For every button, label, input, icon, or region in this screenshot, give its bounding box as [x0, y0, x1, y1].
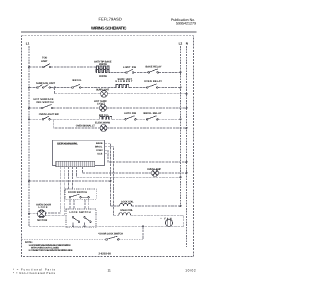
junction lock foot B — [84, 225, 86, 227]
oven lamp L4 — [152, 170, 159, 177]
svg-text:IND SWITCH: IND SWITCH — [37, 101, 54, 104]
junction lock foot A — [72, 225, 74, 227]
harness wire 4 from connector — [71, 167, 73, 189]
junction oven lamp row N — [186, 172, 188, 174]
switch S9 — [125, 116, 137, 120]
wire lock row lower — [114, 215, 184, 226]
harness wire 1 from connector — [45, 167, 60, 213]
lock solenoid coil upper — [120, 203, 132, 206]
broil element coil R3 — [99, 116, 112, 119]
svg-text:* = Non-Illustrated Parts: * = Non-Illustrated Parts — [13, 272, 56, 275]
wire dashed interlock row — [22, 238, 143, 240]
svg-text:BAKE RELAY: BAKE RELAY — [146, 66, 162, 69]
wire oven lamp row — [83, 172, 187, 174]
wire row4 hot surface circuit — [29, 107, 187, 109]
switch S3 bake relay — [148, 69, 159, 73]
lamp L2 hot surface — [100, 105, 107, 112]
svg-text:DOOR SWITCH: DOOR SWITCH — [68, 191, 87, 194]
svg-text:L1: L1 — [26, 42, 30, 46]
svg-text:* DOOR LOCK SWITCH: * DOOR LOCK SWITCH — [98, 232, 123, 235]
junction row1-L1 — [28, 66, 30, 68]
switch S5 — [72, 84, 81, 88]
N bus — [186, 46, 188, 247]
switch S10 broil relay — [146, 116, 158, 120]
L1 bus — [28, 46, 30, 226]
door switch contact — [69, 194, 89, 198]
svg-text:ELECTRONIC OVEN CONTROL: ELECTRONIC OVEN CONTROL — [57, 142, 78, 145]
lock switch contact A — [72, 217, 80, 223]
schematic border frame — [22, 36, 194, 257]
svg-text:2-6203-08: 2-6203-08 — [99, 252, 112, 255]
svg-text:CONV: CONV — [96, 149, 103, 152]
svg-text:OVEN LIGHT SW: OVEN LIGHT SW — [39, 113, 60, 116]
door switch box dashed — [65, 189, 96, 199]
junction connector row L2 — [180, 176, 182, 178]
junction row3-N — [186, 93, 188, 95]
junction lock row upper L2 end — [180, 205, 182, 207]
svg-text:N: N — [186, 42, 189, 46]
junction DLB wire N — [186, 161, 188, 163]
wire row1 bake circuit — [29, 67, 181, 72]
junction lock feed L1 — [28, 180, 30, 182]
bake element coil connector — [95, 69, 97, 73]
svg-text:LIMIT SW: LIMIT SW — [123, 66, 137, 69]
title rule — [21, 31, 197, 33]
door lock motor M1 — [38, 210, 46, 218]
wire row2 surface unit circuit — [29, 87, 181, 89]
convection fan motor M2 — [165, 219, 172, 226]
svg-text:MOTOR: MOTOR — [37, 219, 47, 222]
lock coil lower — [119, 213, 131, 216]
svg-text:WIRING SCHEMATIC: WIRING SCHEMATIC — [91, 26, 127, 31]
EOC pin stub BAKE wire to lock coil row — [105, 143, 111, 206]
svg-text:BROIL: BROIL — [95, 146, 103, 149]
switch S7 — [41, 105, 53, 109]
junction row6-N — [186, 127, 188, 129]
svg-text:OVEN RELAY: OVEN RELAY — [144, 80, 162, 83]
wire row6 oven signal lamp — [54, 119, 187, 128]
svg-text:ELEM 3400W: ELEM 3400W — [95, 121, 111, 124]
svg-text:NOTE:: NOTE: — [25, 241, 33, 244]
lamp L3 oven signal — [100, 125, 107, 132]
svg-text:BAKE: BAKE — [96, 142, 103, 145]
wire branch to surface lamp — [54, 88, 56, 94]
svg-text:L2: L2 — [179, 42, 183, 46]
lock switch box dashed — [66, 209, 96, 228]
junction row4-L1 — [28, 107, 30, 109]
junction row5-L2 — [180, 118, 182, 120]
bake element coil R1 upper row — [96, 66, 110, 69]
wire branch down to lock indicator switch — [142, 226, 144, 239]
junction row4-N — [186, 107, 188, 109]
wire L1 to lock feed row — [29, 180, 111, 182]
svg-text:AUTO SW: AUTO SW — [124, 112, 137, 115]
wire lock switch feet to bottom row — [73, 222, 85, 226]
svg-text:LIMIT: LIMIT — [41, 60, 48, 63]
switch S1 TOD — [43, 64, 51, 68]
wire connector to L2 row — [76, 176, 180, 178]
wire box1 bottom feeds — [70, 199, 89, 209]
switch S4 surface unit double contact — [37, 85, 51, 89]
junction lock feed twin — [110, 180, 112, 182]
svg-text:2. CONNECTOR P1 SHOWN FROM WIR: 2. CONNECTOR P1 SHOWN FROM WIRING SIDE — [29, 249, 73, 252]
junction row2-L2 — [180, 87, 182, 89]
junction row2 lamp branch — [54, 87, 56, 89]
svg-text:LOCK SWITCH: LOCK SWITCH — [70, 211, 91, 214]
bake element coil R1 lower row — [96, 70, 110, 73]
lock switch contact B — [84, 217, 92, 223]
svg-text:3000W: 3000W — [99, 75, 108, 78]
svg-text:BROIL: BROIL — [73, 79, 82, 82]
svg-text:UNLK COIL: UNLK COIL — [120, 209, 133, 212]
svg-text:10/02: 10/02 — [185, 269, 196, 273]
svg-text:11: 11 — [108, 268, 112, 272]
harness wire 3 from connector — [67, 167, 69, 189]
junction row2-L1 — [28, 87, 30, 89]
svg-text:OVEN SIGNAL LT: OVEN SIGNAL LT — [76, 124, 95, 127]
harness wire 2 from connector — [45, 167, 64, 216]
wire lock row upper — [111, 205, 181, 207]
junction row5-L1 — [28, 118, 30, 120]
lamp L1 surface indicator — [101, 90, 108, 97]
switch S6 — [146, 84, 158, 88]
wire row3 surface indicator lamp — [55, 93, 187, 95]
wire row5 broil circuit — [29, 118, 181, 120]
svg-text:LOCK: LOCK — [39, 206, 48, 209]
svg-text:5995421279: 5995421279 — [176, 22, 196, 26]
svg-text:BROIL RELAY: BROIL RELAY — [144, 112, 162, 115]
svg-text:FEFL79ASD: FEFL79ASD — [99, 17, 122, 22]
svg-text:ELEMENT: ELEMENT — [116, 80, 133, 83]
element coil R2 — [116, 85, 130, 88]
svg-text:LOCK COIL: LOCK COIL — [121, 200, 134, 203]
L2 bus — [180, 46, 182, 206]
switch S8 oven light — [42, 116, 50, 120]
harness wire 5 from connector — [75, 167, 77, 178]
svg-text:DLB: DLB — [98, 153, 103, 156]
wire bottom row from L1 — [29, 225, 184, 227]
harness wire 6 from connector to oven lamp row — [82, 167, 84, 173]
EOC pin stub BROIL wire to lower lock coil row — [105, 147, 114, 216]
EOC pin stub DLB — [105, 153, 110, 155]
EOC pin stub CONV wire to N — [105, 150, 187, 162]
svg-text:2850W: 2850W — [99, 63, 108, 66]
svg-text:* = Functional Parts: * = Functional Parts — [13, 268, 56, 271]
switch S2 limit — [126, 69, 134, 73]
junction bottom row branch — [142, 225, 144, 227]
wire L1 to motor — [29, 213, 38, 215]
connector P1 strip — [56, 161, 95, 166]
svg-text:SURFACE UNIT: SURFACE UNIT — [36, 82, 55, 85]
interlock switch — [106, 236, 119, 240]
junction row1-L2 — [180, 71, 182, 73]
EOC control board box U1 — [53, 140, 105, 165]
junction motor L1 — [28, 213, 30, 215]
